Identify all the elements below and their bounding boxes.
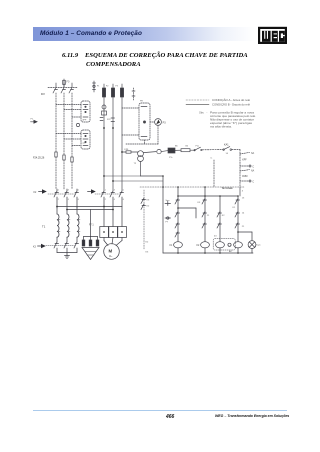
- bus wire lower: [66, 209, 114, 211]
- contact: [202, 199, 207, 205]
- branch KA1 vertical: [237, 196, 239, 242]
- contact: [235, 199, 240, 205]
- dashed box around coils: [213, 239, 235, 250]
- svg-text:F3: F3: [116, 86, 119, 88]
- svg-text:K1: K1: [170, 245, 174, 247]
- arrow K2: [39, 189, 47, 194]
- svg-text:4: 4: [114, 199, 116, 201]
- wire line 2: [112, 97, 114, 191]
- svg-text:6: 6: [78, 199, 80, 201]
- svg-text:K3: K3: [198, 202, 201, 204]
- junction: [103, 127, 105, 129]
- lamp feed wire: [238, 232, 252, 241]
- aux mark: [132, 88, 135, 100]
- wire phase B lower dashed: [63, 160, 65, 189]
- link wire: [178, 207, 196, 209]
- star point wire: [57, 253, 77, 259]
- wire dashed to box: [122, 107, 139, 109]
- wire rail solid below: [239, 187, 241, 196]
- interlock contact K3: [141, 198, 146, 204]
- svg-text:K2: K2: [197, 245, 201, 247]
- svg-text:Terminais: Terminais: [222, 186, 234, 190]
- svg-text:F7: F7: [166, 222, 169, 224]
- wire dashed rail down: [239, 150, 241, 187]
- disconnect switch DV: [48, 83, 78, 93]
- E glyph: [272, 31, 278, 42]
- contactor K1 pole 3: [119, 191, 124, 227]
- coil K2: [201, 242, 210, 253]
- svg-text:C: C: [252, 166, 254, 168]
- switch blade: [194, 147, 202, 151]
- svg-text:CONDIÇÃO B - Depois do relé: CONDIÇÃO B - Depois do relé: [212, 104, 251, 107]
- wire dashed box to meter: [150, 121, 155, 123]
- arrow K3: [38, 244, 46, 249]
- contact KA1: [223, 147, 232, 151]
- svg-text:P1s: P1s: [196, 146, 200, 148]
- coil K1: [174, 242, 183, 253]
- meter circle on line 1: [102, 105, 106, 109]
- ammeter P3: [155, 119, 162, 126]
- svg-text:Obs:: Obs:: [199, 112, 204, 115]
- svg-text:na alta tênsia.: na alta tênsia.: [210, 126, 232, 129]
- feeder bus to fuses: [84, 210, 98, 241]
- overload relay F7.1 box 1: [100, 227, 109, 238]
- contact: [202, 223, 207, 229]
- pushbutton S1: [165, 217, 171, 219]
- svg-text:com: com: [82, 143, 86, 145]
- svg-text:1: 1: [58, 189, 60, 191]
- lamp H1: [248, 241, 256, 253]
- junction dots ladder: [162, 175, 239, 254]
- contactor K1 pole 1: [101, 191, 106, 227]
- wire dashed mid vertical: [213, 160, 215, 187]
- fuse F3: [120, 84, 123, 97]
- wire tap dashed: [56, 104, 81, 106]
- arrow P1: [31, 119, 38, 124]
- svg-text:3: 3: [68, 189, 70, 191]
- overload relay F7.1 box 3: [118, 227, 127, 238]
- wire dashed box bottom: [144, 140, 146, 144]
- coil K3: [216, 242, 225, 253]
- contact block box 2: [81, 130, 90, 149]
- relay contact C: [240, 165, 251, 167]
- pole number labels: [58, 189, 125, 201]
- svg-text:KPF: KPF: [242, 160, 247, 162]
- branch K2 vertical: [204, 187, 206, 242]
- fuse F2: [111, 84, 114, 97]
- contact: [217, 212, 222, 218]
- wire from T2 top: [143, 152, 156, 153]
- svg-text:2: 2: [105, 199, 107, 201]
- fuse F25: [63, 155, 65, 160]
- pushbutton S0: [165, 202, 171, 206]
- wire line 1: [103, 97, 105, 191]
- svg-text:C: C: [252, 181, 254, 183]
- ladder top rail dashed: [140, 186, 244, 188]
- contactor K2 pole 1: [54, 189, 59, 208]
- contactor K1 pole 2: [110, 191, 115, 227]
- svg-text:14: 14: [242, 213, 245, 215]
- contact: [235, 223, 240, 229]
- wire T2 secondary 2: [103, 175, 163, 182]
- svg-text:21: 21: [207, 215, 210, 217]
- contact: [202, 212, 207, 218]
- wire phase B dashed: [63, 93, 65, 155]
- small circle node: [76, 123, 79, 126]
- tick marks line 2: [111, 118, 115, 122]
- delta winding triangle: [82, 248, 99, 260]
- svg-text:14: 14: [226, 153, 229, 155]
- svg-text:F24,25,26: F24,25,26: [33, 157, 45, 160]
- aux circle: [228, 243, 231, 246]
- wire dashed horizontal: [126, 143, 158, 145]
- svg-text:M: M: [109, 249, 113, 254]
- ladder left rail: [162, 176, 164, 253]
- branch K1 vertical: [177, 187, 179, 242]
- contact: [235, 212, 240, 218]
- interlock dashed rail: [143, 190, 145, 249]
- svg-text:6: 6: [123, 199, 125, 201]
- svg-text:13: 13: [242, 198, 245, 200]
- contact block box 1: [81, 101, 90, 122]
- svg-text:3: 3: [114, 189, 116, 191]
- svg-text:1: 1: [105, 189, 107, 191]
- contactor K2 link dashed: [48, 193, 75, 195]
- interlock contact K2: [141, 204, 146, 210]
- section title: [62, 51, 292, 69]
- fuse block 1: [82, 240, 85, 246]
- wire tap dashed: [72, 116, 81, 118]
- autotransformer T1 winding 3: [77, 207, 79, 243]
- junction: [112, 127, 114, 129]
- ladder bottom rail: [163, 252, 253, 254]
- contact: [175, 223, 180, 229]
- svg-text:NA: NA: [251, 170, 255, 173]
- contactor K3 pole 1: [54, 242, 59, 253]
- svg-text:K2: K2: [146, 242, 149, 244]
- motor leads: [104, 238, 122, 246]
- svg-text:DV: DV: [41, 92, 45, 96]
- svg-text:3: 3: [242, 191, 244, 193]
- legend line condition A: [186, 99, 209, 101]
- legend line condition B: [186, 103, 209, 105]
- instrument dashed box: [139, 103, 150, 140]
- contactor K1 link dashed: [95, 193, 120, 195]
- label F1 F2 F3: [97, 86, 119, 88]
- fuse F26: [71, 157, 73, 162]
- svg-text:F22: F22: [107, 119, 111, 121]
- ladder cross rail: [178, 195, 238, 197]
- svg-text:PR: PR: [140, 101, 143, 103]
- svg-text:F7.1: F7.1: [89, 225, 94, 227]
- svg-text:Spn: Spn: [166, 200, 171, 202]
- junction: [121, 151, 123, 153]
- transformer T2: [138, 151, 144, 162]
- fuse F24: [55, 152, 57, 157]
- wire tap dashed: [72, 145, 81, 147]
- svg-text:K3: K3: [146, 252, 149, 254]
- fuse block 3: [96, 240, 99, 246]
- svg-text:K2: K2: [222, 215, 225, 217]
- svg-text:T1: T1: [42, 225, 46, 229]
- contactor K3 pole 2: [64, 242, 69, 253]
- resistor: [175, 149, 194, 152]
- svg-text:4PF: 4PF: [82, 120, 87, 122]
- svg-text:B5: B5: [186, 145, 189, 147]
- svg-text:K2: K2: [147, 206, 150, 208]
- svg-text:K3: K3: [147, 200, 150, 202]
- svg-text:F0: F0: [67, 81, 70, 84]
- fuse block 2: [89, 240, 92, 246]
- svg-text:4: 4: [68, 199, 70, 201]
- svg-text:ts: ts: [211, 157, 213, 160]
- wire phase C dashed: [71, 93, 73, 157]
- svg-text:2: 2: [58, 199, 60, 201]
- header bar: [33, 27, 255, 41]
- aux component: [93, 81, 96, 92]
- contactor K2 pole 2: [64, 189, 69, 210]
- contact: [217, 223, 222, 229]
- note Obs: [199, 112, 256, 129]
- arrow K1: [88, 189, 96, 194]
- contact: [175, 212, 180, 218]
- bus wire upper: [56, 206, 122, 208]
- contact: [175, 232, 180, 238]
- branch K3 vertical: [219, 196, 221, 242]
- W glyph: [262, 31, 271, 42]
- svg-text:21: 21: [242, 226, 245, 228]
- svg-text:3~: 3~: [109, 254, 113, 258]
- svg-text:K3: K3: [33, 247, 37, 249]
- svg-text:CONDIÇÃO A - Antes do relé: CONDIÇÃO A - Antes do relé: [212, 99, 251, 102]
- fuse F0: [63, 79, 66, 88]
- svg-text:F2: F2: [106, 86, 109, 88]
- relay contact C 2: [240, 180, 251, 182]
- wire dashed: [232, 149, 240, 151]
- tick marks: [100, 118, 103, 121]
- svg-text:5: 5: [123, 189, 125, 191]
- svg-text:-: -: [207, 112, 208, 115]
- svg-text:F1: F1: [97, 86, 100, 88]
- svg-text:43: 43: [214, 236, 217, 238]
- svg-text:P1: P1: [31, 119, 34, 121]
- autotransformer T1 winding 1: [57, 207, 59, 243]
- winding taps: [57, 220, 80, 232]
- contactor K3 pole 3: [74, 242, 79, 253]
- wire tap dashed: [64, 109, 81, 111]
- overload relay F7.1 box 2: [109, 227, 118, 238]
- fuse F23: [122, 151, 138, 153]
- contact: [175, 199, 180, 205]
- footer: [33, 410, 287, 411]
- wire phase A lower dashed: [55, 157, 57, 189]
- fuse F1: [102, 84, 105, 97]
- CT ring W1: [157, 149, 168, 153]
- svg-text:B6: B6: [175, 146, 178, 148]
- wire dashed down: [157, 125, 159, 144]
- svg-text:T2: T2: [134, 163, 137, 165]
- meter W1: [168, 148, 175, 153]
- svg-text:NA: NA: [251, 152, 255, 155]
- autotransformer T1 winding 2: [67, 210, 69, 243]
- wire tap dashed: [64, 138, 81, 140]
- wire line 3: [121, 97, 123, 191]
- svg-text:K2: K2: [34, 192, 38, 194]
- coil KA1: [234, 242, 243, 253]
- svg-text:5: 5: [78, 189, 80, 191]
- svg-text:FMM: FMM: [242, 176, 247, 178]
- motor M1: [104, 244, 120, 260]
- svg-text:Dpn: Dpn: [257, 245, 262, 247]
- relay branch NA 2: [240, 170, 250, 171]
- link wire 2: [195, 208, 197, 218]
- svg-text:K1: K1: [233, 207, 236, 209]
- wire tap dashed: [56, 133, 81, 135]
- contactor K2 pole 3: [74, 189, 79, 208]
- svg-text:PTs: PTs: [169, 157, 172, 159]
- wire dashed to KA1: [202, 149, 222, 151]
- wire dashed to box: [122, 134, 139, 136]
- contactor K3 link dashed: [46, 245, 75, 247]
- G glyph: [279, 31, 285, 42]
- wire phase A dashed: [55, 93, 57, 152]
- svg-text:KA1: KA1: [224, 143, 229, 146]
- svg-text:P3: P3: [163, 121, 167, 124]
- wire T2 secondary: [141, 162, 164, 177]
- svg-text:A2: A2: [229, 250, 232, 253]
- relay branch NA: [240, 152, 250, 154]
- box on line 1: [102, 111, 107, 115]
- wire phase C lower dashed: [71, 162, 73, 189]
